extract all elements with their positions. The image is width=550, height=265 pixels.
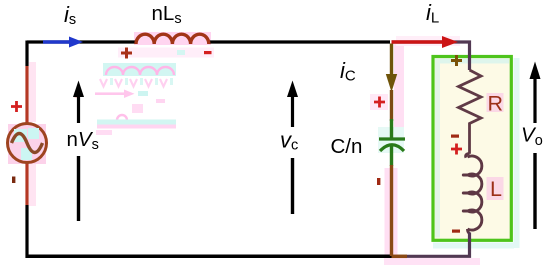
inductor nLs (four humps) (136, 34, 209, 44)
ghost artifact: pale pink band behind inductor polarity marks (118, 48, 214, 58)
ghost artifact: pink arrow (95, 92, 124, 95)
capacitor branch brown wire between arrow and capacitor (390, 90, 393, 121)
ghost artifact: pale pink above load box near arrow (396, 36, 460, 46)
ghost artifact: pink halo behind R label (487, 93, 504, 112)
AC source V1 circle (8, 124, 47, 163)
arrow nVs up (77, 95, 80, 123)
ghost artifact: cyan band around capacitor plates (378, 127, 404, 153)
ghost artifact: pink band right of capacitor branch top (394, 44, 404, 130)
ghost artifact: cyan patches inside source circle (14, 129, 27, 142)
ghost artifact: pink halo behind L label (487, 177, 504, 200)
ghost artifact: pink band under cyan band (97, 125, 176, 129)
minus sign right of inductor (204, 51, 212, 54)
wire: top, inductor to capacitor node (209, 40, 390, 43)
wire between R and L (468, 129, 471, 154)
wire: purple top from node to load box (392, 42, 470, 70)
minus sign below resistor (451, 135, 459, 138)
ghost artifact: red triangle at nVs arrowhead (73, 92, 80, 98)
minus sign of source (12, 177, 15, 184)
ghost artifact: cyan tick right of inductor minus (177, 50, 185, 55)
ghost artifact: cyan band with pink coil ghost (103, 63, 176, 76)
wire: left vertical dark-red upper segment (25, 66, 28, 125)
ghost artifact: pink band behind capacitor lower wire (385, 168, 398, 256)
ghost artifact: pink halo along left wire lower (29, 164, 36, 206)
svg-text:R: R (488, 92, 504, 116)
inductor L coil (four right-bulging loops) (463, 154, 482, 234)
ghost artifact: pink halo along left wire upper (29, 62, 36, 122)
svg-text:L: L (490, 177, 502, 201)
line below nVs label (77, 156, 80, 221)
capacitor curved bottom plate (380, 145, 404, 151)
ghost artifact: pink bump above cyan band (117, 115, 127, 120)
arrow vc up (291, 95, 294, 127)
ghost artifact: cyan halo inside box top edge (436, 59, 509, 64)
wire: top, source corner to inductor (27, 40, 136, 43)
wire: bottom black from source to capacitor node (26, 255, 392, 259)
ghost artifact: pink coil ghost arcs (106, 67, 174, 75)
AC source sine wave (12, 134, 43, 153)
wire: left vertical dark-red lower segment (25, 163, 28, 205)
wire: purple from coil through box bottom to bottom wire (407, 233, 470, 257)
ghost artifact: cyan halo outside box bottom edge (433, 243, 514, 249)
ghost artifact: cyan halo outside box right edge (514, 58, 520, 248)
ghost artifact: cyan dash after pink arrow (138, 91, 148, 96)
capacitor C/n green lead upper (390, 119, 393, 138)
minus sign below capacitor (377, 178, 380, 185)
minus sign at load box bottom (452, 230, 460, 233)
plus sign above capacitor (374, 97, 385, 108)
brown elbow at bottom junction (392, 255, 408, 259)
ghost artifact: pink halo behind source circle (8, 124, 46, 164)
ghost artifact: cyan ticks in V row (110, 78, 173, 85)
ghost artifact: pink band behind top inductor (134, 32, 211, 45)
load box fill and green border (433, 57, 511, 241)
current arrow is (blue) (43, 40, 70, 43)
current arrow iL (red) (392, 40, 444, 44)
plus sign left of inductor (121, 48, 132, 59)
capacitor branch brown wire lower (390, 165, 393, 256)
plus sign above load inductor (451, 144, 462, 155)
line below Vo label (533, 153, 536, 229)
ghost artifact: pink dash (156, 99, 165, 103)
ghost artifact: row of pink V marks (100, 79, 167, 87)
ghost artifact: cyan band (97, 120, 176, 125)
ghost artifact: pink specks bottom of ghost stack (96, 130, 112, 135)
line below vc label (291, 158, 294, 214)
ghost artifact: pink wash around capacitor plus (370, 94, 388, 110)
capacitor branch olive wire upper with current arrow down (390, 44, 393, 81)
ghost artifact: cyan halo inside box left edge (435, 59, 440, 238)
wire: left vertical black bottom segment (25, 205, 28, 258)
wire: left vertical black top segment (25, 41, 28, 67)
arrow Vo up (533, 95, 536, 123)
svg-text:C/n: C/n (331, 135, 363, 158)
resistor R zigzag (459, 70, 482, 129)
ghost artifact: pink band below bottom wire right part (384, 258, 480, 265)
plus sign at load box top (451, 55, 462, 66)
ghost artifact: pale pink blob (132, 104, 143, 113)
plus sign of source (11, 101, 22, 112)
capacitor green lead lower (390, 146, 393, 166)
capacitor top plate (379, 137, 405, 140)
